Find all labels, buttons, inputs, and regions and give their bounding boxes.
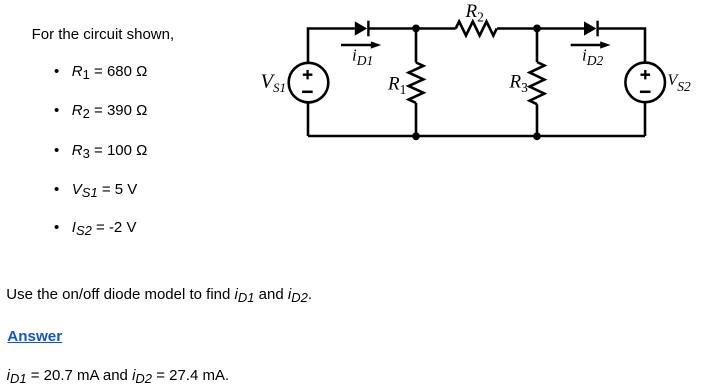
bullet R2 value (54, 103, 147, 118)
question text (6, 287, 312, 302)
wire VS1 bottom riser (307, 103, 310, 136)
svg-text:R3: R3 (509, 72, 529, 96)
svg-text:iD1: iD1 (352, 46, 373, 69)
node A bottom junction (412, 132, 420, 140)
wire R2 to D2 through node B (497, 27, 584, 30)
VS1 minus sign (302, 91, 313, 94)
VS2 plus sign (641, 70, 651, 79)
svg-text:VS2: VS2 (668, 72, 692, 94)
bullet IS2 value (54, 220, 136, 235)
svg-text:R2: R2 (465, 1, 484, 25)
node B top junction (533, 25, 541, 33)
wire from VS1 top to D1 (308, 29, 355, 63)
VS1 plus sign (303, 70, 313, 79)
svg-text:iD2: iD2 (582, 46, 603, 69)
answer link (7, 329, 62, 344)
bullet R3 value (54, 143, 147, 158)
resistor R2 (456, 22, 497, 36)
node A top junction (412, 25, 420, 33)
voltage source VS1 (289, 63, 329, 103)
svg-text:R1: R1 (387, 73, 406, 97)
wire R1 leads (415, 29, 418, 137)
node B bottom junction (533, 132, 541, 140)
bullet VS1 value (54, 182, 137, 197)
current arrow iD1 (341, 41, 381, 48)
wire VS2 bottom riser (644, 103, 647, 136)
resistor R3 (530, 62, 545, 104)
intro text (32, 27, 175, 42)
voltage source VS2 (625, 63, 665, 103)
VS2 minus sign (640, 91, 651, 94)
answer text (7, 368, 230, 383)
wire D2 to VS2 top (599, 29, 645, 63)
bullet R1 value (54, 64, 147, 79)
wire bottom rail (308, 135, 645, 138)
current arrow iD2 (571, 41, 611, 48)
svg-text:VS1: VS1 (261, 71, 287, 96)
resistor R1 (409, 63, 424, 103)
wire D1 to R2 through node A (369, 27, 455, 30)
diode D2 (584, 21, 599, 37)
diode D1 (355, 21, 370, 37)
wire R3 leads (536, 29, 539, 137)
